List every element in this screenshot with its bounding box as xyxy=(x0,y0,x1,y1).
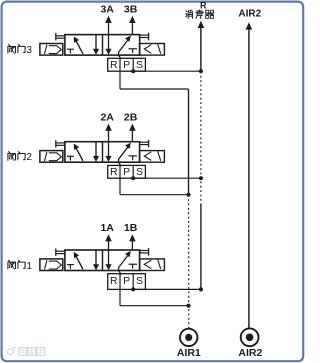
svg-text:AIR2: AIR2 xyxy=(238,9,261,20)
solenoid pins left of valve V2 xyxy=(56,140,65,147)
svg-text:1: 1 xyxy=(26,261,32,272)
valve V1 label 阀门1 xyxy=(8,260,32,272)
valve V2 left-position down-arrow path xyxy=(93,142,99,162)
svg-text:2B: 2B xyxy=(124,111,138,123)
port 1A riser arrow xyxy=(105,234,112,265)
solenoid coil of valve V3 xyxy=(40,44,63,56)
port 2A riser arrow xyxy=(105,124,112,157)
spring return of valve V1 xyxy=(140,259,165,271)
label AIR1 xyxy=(177,347,201,359)
valve V2 right-position P-to-B diagonal arrow xyxy=(119,143,131,166)
svg-text:1B: 1B xyxy=(124,222,138,234)
svg-text:S: S xyxy=(136,275,143,287)
label 2B xyxy=(124,111,138,123)
connector AIR1 (circle with dot) xyxy=(180,329,197,346)
label 2A xyxy=(100,111,114,123)
valve V1 port box R P S xyxy=(108,274,146,290)
svg-text:3: 3 xyxy=(26,45,32,56)
svg-text:2A: 2A xyxy=(100,111,114,123)
wire S2 exhaust to muffler line xyxy=(133,177,201,179)
supply line AIR2 with up arrow xyxy=(246,22,253,328)
wire S3 exhaust to muffler line xyxy=(133,70,201,72)
svg-text:S: S xyxy=(136,166,143,178)
junction node P2 on AIR1 line xyxy=(186,193,190,197)
valve V3 left-position blocked port T xyxy=(67,49,74,53)
pins right of valve V3 xyxy=(140,33,149,41)
svg-text:R: R xyxy=(110,166,118,178)
svg-text:3B: 3B xyxy=(124,4,138,16)
svg-text:R: R xyxy=(110,59,118,71)
svg-text:1A: 1A xyxy=(100,222,114,234)
valve V1 body (5/2 two-position box) xyxy=(65,250,140,271)
valve V3 left-position flow path (diagonal arrow) xyxy=(74,36,83,54)
valve V3 right-position blocked port T xyxy=(129,49,138,53)
svg-text:P: P xyxy=(123,275,130,287)
supply line from AIR1 xyxy=(188,89,190,329)
port 2B riser arrow xyxy=(129,124,136,142)
svg-text:AIR1: AIR1 xyxy=(177,347,201,359)
valve V1 right-position exhaust down-arrow (A to R) xyxy=(105,264,111,270)
label 3B xyxy=(124,4,138,16)
svg-text:AIR2: AIR2 xyxy=(238,347,262,359)
label AIR2 (bottom) xyxy=(238,347,262,359)
label 1B xyxy=(124,222,138,234)
junction node S1 at port box xyxy=(131,287,135,291)
valve V1 left-position blocked port T xyxy=(67,265,74,269)
label 消声器 (muffler) xyxy=(186,10,214,18)
wire P3 supply run to AIR1 line xyxy=(120,88,189,90)
svg-text:S: S xyxy=(136,59,143,71)
wire P2 supply run to AIR1 line xyxy=(120,194,189,196)
valve V2 left-position blocked port T xyxy=(67,156,74,160)
label 3A xyxy=(100,4,114,16)
svg-text:R: R xyxy=(200,1,207,11)
pins right of valve V2 xyxy=(140,140,149,148)
valve V2 port box R P S xyxy=(108,165,146,178)
solenoid coil of valve V1 xyxy=(40,259,63,271)
valve V3 port box R P S xyxy=(108,58,146,71)
port 3A riser arrow xyxy=(105,16,112,50)
valve V2 body (5/2 two-position box) xyxy=(65,142,140,163)
port 1B riser arrow xyxy=(129,234,136,250)
junction node P1 on AIR1 line xyxy=(186,304,190,308)
svg-text:2: 2 xyxy=(26,152,32,163)
pins right of valve V1 xyxy=(140,248,149,256)
valve V1 right-position blocked port T xyxy=(129,264,138,268)
label 1A xyxy=(100,222,114,234)
spring return of valve V3 xyxy=(140,44,165,56)
solenoid pins left of valve V1 xyxy=(56,249,65,256)
port 3B riser arrow xyxy=(129,16,136,35)
valve V2 right-position blocked port T xyxy=(129,156,138,160)
wire P1 supply drop xyxy=(119,289,121,305)
valve V1 left-position flow path (diagonal arrow) xyxy=(74,252,83,269)
junction node S3 on muffler line xyxy=(199,69,203,73)
wire P1 supply run to AIR1 line xyxy=(120,305,189,307)
junction node S3 at port box xyxy=(131,69,135,73)
valve V2 left-position flow path (diagonal arrow) xyxy=(74,144,83,162)
valve V2 right-position exhaust down-arrow (A to R) xyxy=(105,156,111,162)
wire S1 exhaust to muffler line xyxy=(133,288,201,290)
connector AIR2 (circle with dot) xyxy=(241,328,259,346)
solenoid pins left of valve V3 xyxy=(56,33,65,40)
valve V3 body (5/2 two-position box) xyxy=(65,35,140,56)
junction node S1 on muffler line xyxy=(199,287,203,291)
valve V1 left-position down-arrow path xyxy=(93,250,99,270)
junction node S2 on muffler line xyxy=(199,176,203,180)
svg-text:P: P xyxy=(123,166,130,178)
muffler exhaust line R with up arrow xyxy=(198,21,205,290)
wire P3 supply drop xyxy=(119,71,121,89)
svg-text:P: P xyxy=(123,59,130,71)
solenoid coil of valve V2 xyxy=(40,151,63,163)
label R (muffler) xyxy=(200,1,207,11)
svg-text:R: R xyxy=(110,275,118,287)
spring return of valve V2 xyxy=(140,151,165,163)
valve V3 right-position exhaust down-arrow (A to R) xyxy=(105,49,111,55)
svg-text:3A: 3A xyxy=(100,4,114,16)
valve V1 right-position P-to-B diagonal arrow xyxy=(119,251,131,274)
label AIR2 (top) xyxy=(238,9,261,20)
watermark xyxy=(8,348,45,356)
junction node S2 at port box xyxy=(131,176,135,180)
wire P2 supply drop xyxy=(119,178,121,195)
valve V3 label 阀门3 xyxy=(8,45,32,57)
valve V3 left-position down-arrow path xyxy=(93,35,99,55)
valve V2 label 阀门2 xyxy=(8,152,32,164)
valve V3 right-position P-to-B diagonal arrow xyxy=(119,36,131,59)
